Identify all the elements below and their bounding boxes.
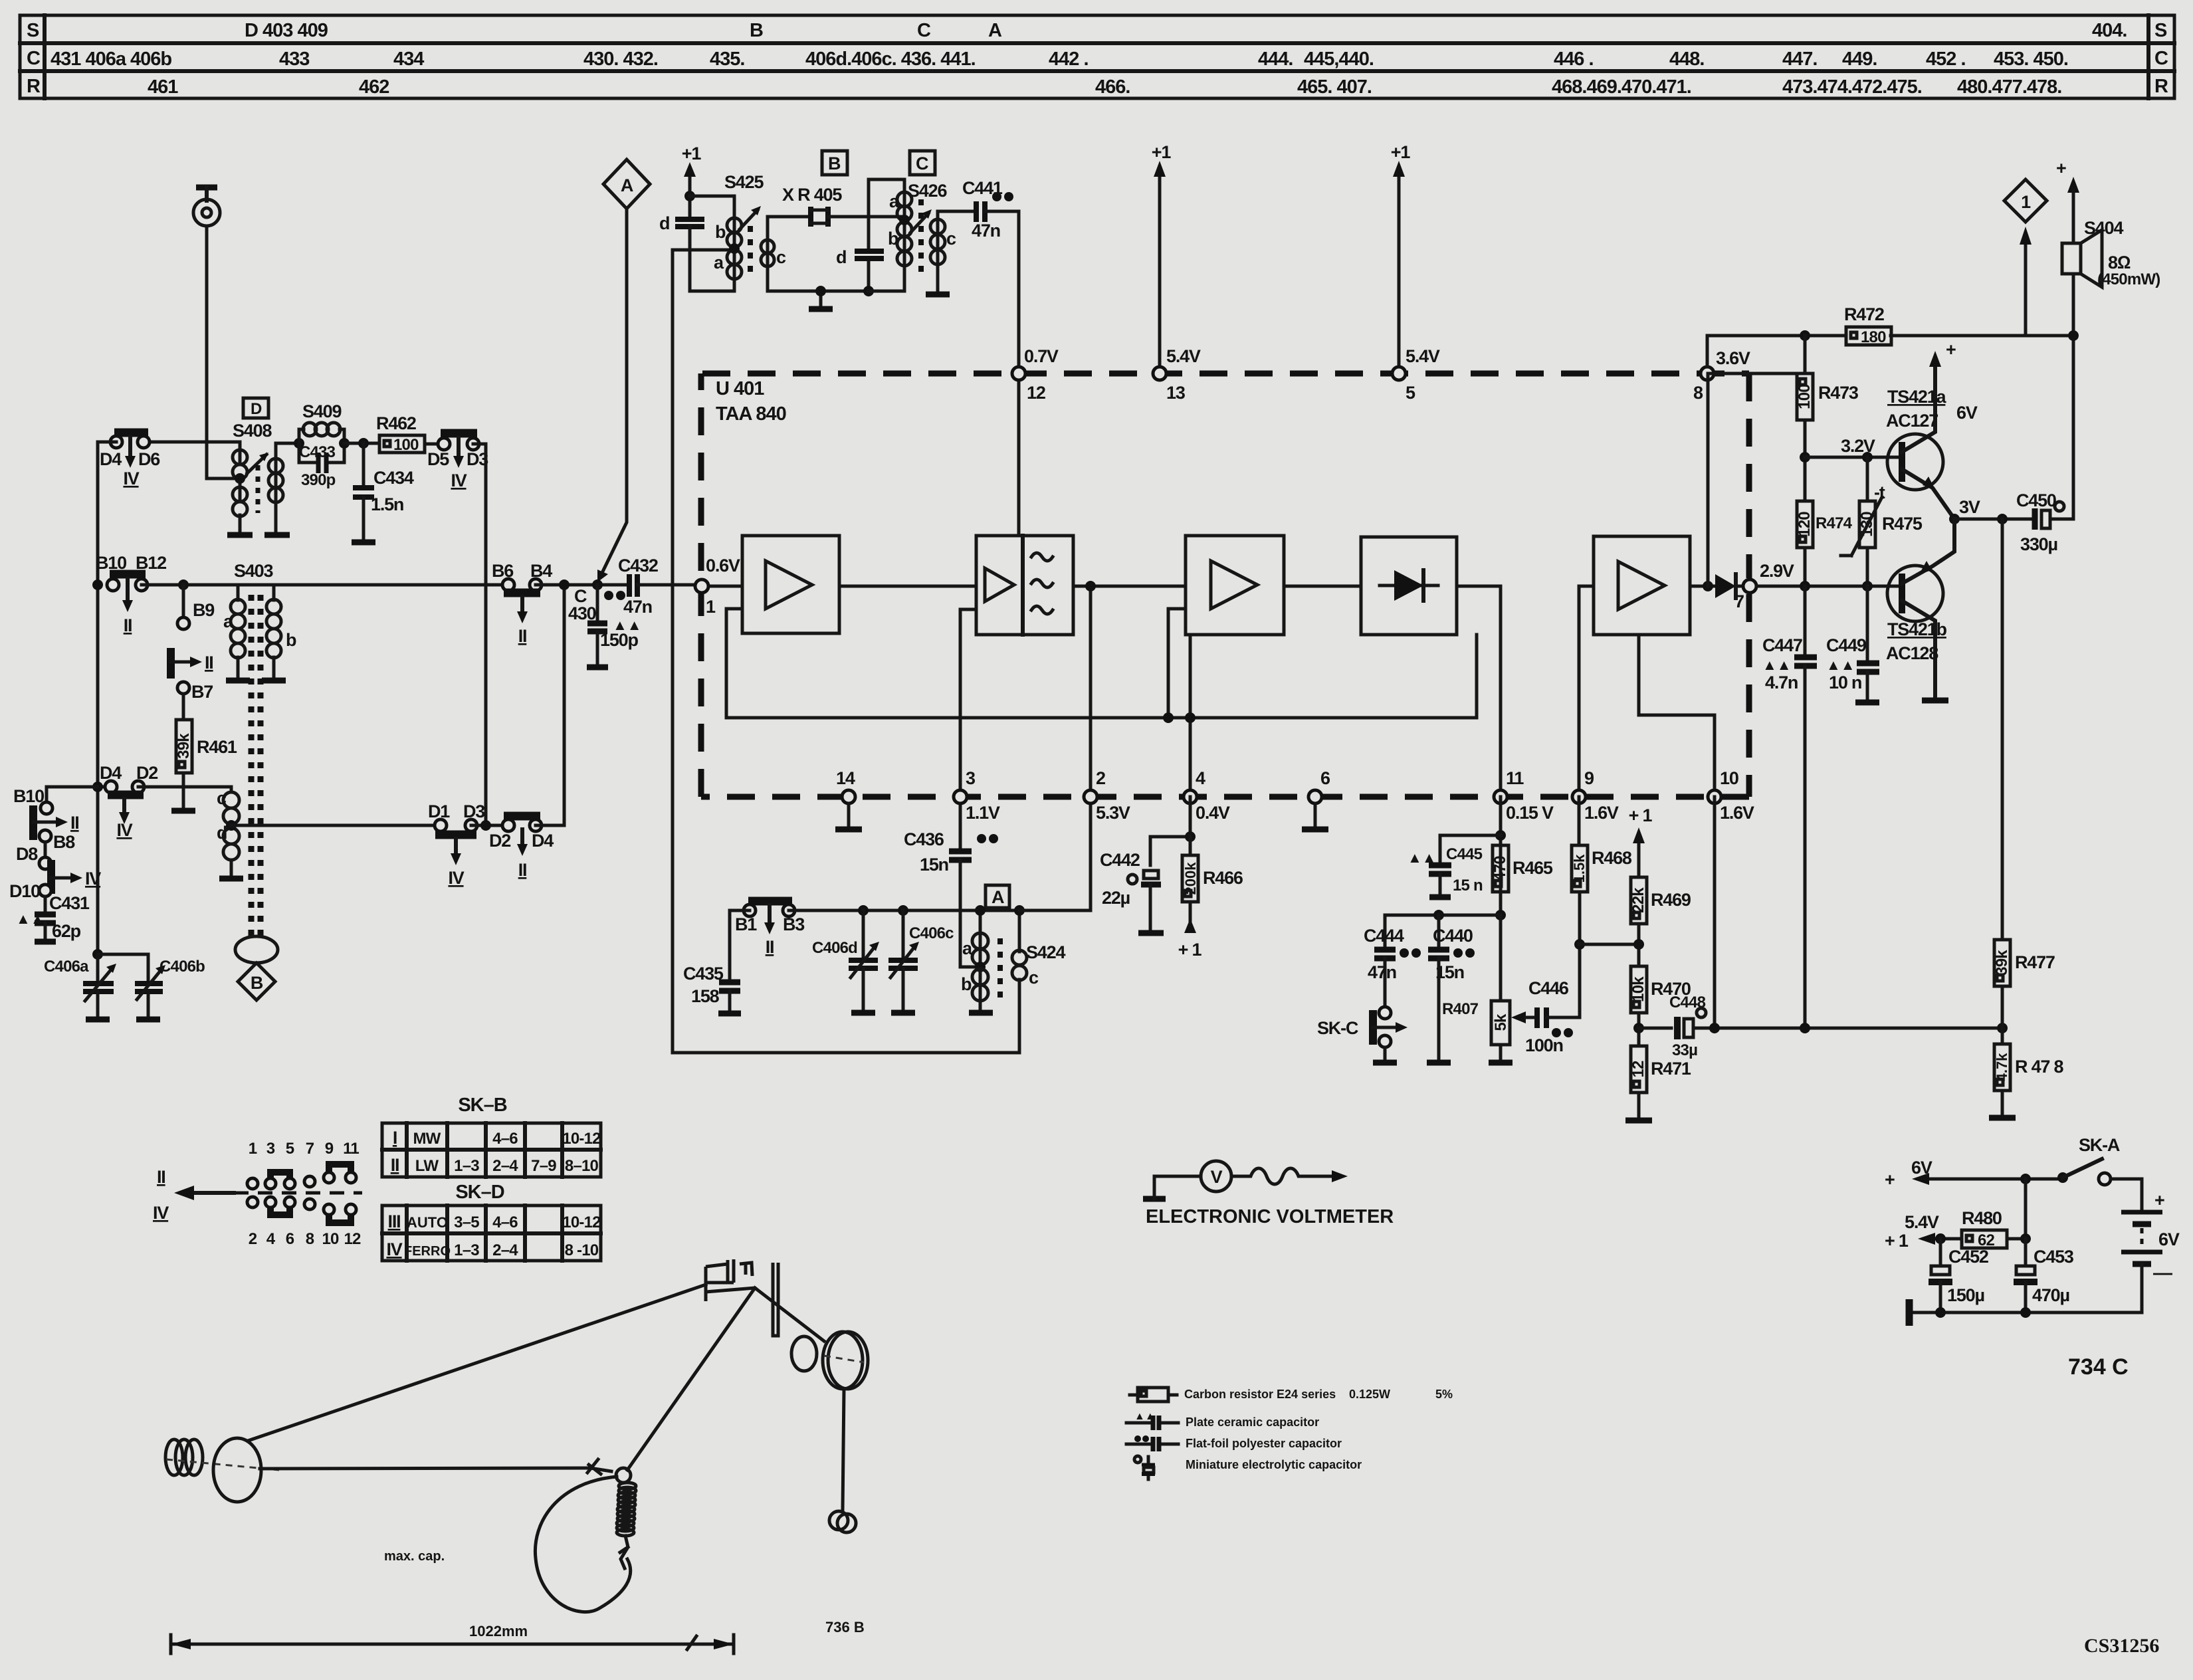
resistor R470 10k: [1629, 966, 1691, 1046]
svg-text:462: 462: [359, 76, 389, 98]
svg-text:SK-C: SK-C: [1317, 1018, 1358, 1038]
svg-text:8: 8: [1693, 383, 1703, 403]
node pin 11: [1494, 768, 1554, 823]
svg-text:5k: 5k: [1492, 1013, 1510, 1031]
svg-text:10-12: 10-12: [562, 1130, 601, 1148]
svg-text:B12: B12: [136, 553, 166, 573]
node 3V emitter: [1949, 497, 1980, 524]
resistor R471 12: [1625, 1046, 1691, 1120]
svg-text:8: 8: [306, 1230, 314, 1248]
svg-text:0.4V: 0.4V: [1196, 803, 1230, 823]
svg-text:AC128: AC128: [1886, 643, 1938, 663]
svg-text:47n: 47n: [1368, 962, 1396, 982]
legend flat-foil polyester capacitor: [1126, 1435, 1342, 1451]
junction C450 R477 riser: [1997, 514, 2008, 524]
svg-text:1.5n: 1.5n: [371, 494, 403, 514]
feedback wire block5 to pin10: [1639, 635, 1715, 797]
svg-text:5.4V: 5.4V: [1905, 1212, 1939, 1232]
svg-text:C449: C449: [1826, 635, 1867, 655]
transformer S424 winding a: [972, 933, 988, 949]
svg-text:4: 4: [1196, 768, 1205, 788]
svg-text:B: B: [828, 154, 841, 173]
capacitor C441 47n: [962, 178, 1013, 241]
svg-text:▲▲: ▲▲: [1826, 657, 1855, 673]
svg-text:448.: 448.: [1669, 49, 1704, 70]
svg-text:3–5: 3–5: [454, 1213, 479, 1231]
svg-text:S426: S426: [908, 181, 947, 201]
component XR405: [782, 185, 842, 227]
svg-text:452 .: 452 .: [1926, 49, 1966, 70]
S425 secondary c: [761, 240, 774, 253]
svg-text:5: 5: [1406, 383, 1415, 403]
svg-text:468.469.470.471.: 468.469.470.471.: [1552, 76, 1691, 98]
detector block 4: [1361, 537, 1457, 635]
svg-text:3.2V: 3.2V: [1841, 436, 1875, 456]
svg-text:I: I: [393, 1128, 397, 1148]
svg-text:100: 100: [1796, 384, 1814, 409]
supply arrow +1 R469: [1629, 805, 1653, 877]
wire S425 sec bottom to ground rail: [768, 266, 869, 291]
svg-text:7: 7: [306, 1140, 314, 1158]
svg-text:(450mW): (450mW): [2097, 270, 2160, 288]
svg-text:B3: B3: [783, 914, 805, 934]
svg-text:1: 1: [2021, 192, 2031, 212]
svg-text:C444: C444: [1364, 926, 1404, 946]
svg-text:5.3V: 5.3V: [1096, 803, 1130, 823]
svg-text:TS421b: TS421b: [1887, 619, 1947, 639]
svg-text:12: 12: [344, 1230, 361, 1248]
svg-text:473.474.472.475.: 473.474.472.475.: [1782, 76, 1922, 98]
connector B oval and diamond: [235, 936, 278, 1000]
contact B9: [177, 585, 215, 629]
svg-text:180: 180: [1861, 328, 1886, 346]
node pin 5 with +1 arrow: [1391, 142, 1440, 403]
svg-text:406d.406c. 436. 441.: 406d.406c. 436. 441.: [805, 49, 976, 70]
svg-text:IV: IV: [448, 868, 464, 888]
capacitor C452 150u: [1929, 1233, 1988, 1312]
transformer S408 primary: [233, 450, 247, 465]
svg-text:d: d: [217, 823, 227, 843]
svg-text:R468: R468: [1592, 848, 1632, 868]
junction C430: [592, 579, 603, 590]
svg-text:434: 434: [393, 49, 424, 70]
capacitor C447 4.7n: [1762, 586, 1817, 1027]
svg-text:465. 407.: 465. 407.: [1297, 76, 1372, 98]
svg-text:C: C: [917, 20, 931, 41]
wire S408 secondary to tank: [276, 443, 299, 459]
battery 6V: [2121, 1190, 2180, 1312]
svg-text:2–4: 2–4: [492, 1241, 518, 1259]
svg-text:S408: S408: [233, 421, 272, 441]
svg-text:404.: 404.: [2092, 20, 2127, 41]
wire supply rail R472: [1707, 336, 2073, 367]
table SK-B: [382, 1095, 601, 1177]
svg-text:2.9V: 2.9V: [1760, 561, 1794, 581]
node pin 2: [1084, 768, 1130, 823]
wire B12 to S403 and B6: [142, 583, 508, 587]
table row C text: [51, 49, 2068, 70]
wire block3 to block4: [1284, 585, 1361, 588]
wire to C406b: [98, 954, 148, 982]
svg-text:158: 158: [691, 986, 720, 1006]
svg-text:A: A: [992, 887, 1004, 907]
wire XR405 to S426: [828, 215, 904, 219]
wire pin3 riser: [960, 609, 976, 797]
junction enclosure top right: [1014, 905, 1025, 916]
svg-text:R: R: [2154, 76, 2168, 97]
dial cord ring: [616, 1468, 631, 1483]
thermistor R475 130: [1841, 457, 1923, 586]
connector diamond A: [603, 159, 650, 209]
svg-text:62p: 62p: [52, 921, 81, 941]
table SK-D: [382, 1182, 601, 1261]
diode U401 output: [1715, 574, 1744, 598]
svg-text:0.6V: 0.6V: [706, 556, 740, 576]
svg-text:R472: R472: [1844, 304, 1884, 324]
ground under S425: [809, 286, 833, 309]
svg-text:3.6V: 3.6V: [1716, 348, 1750, 368]
wire block5 output to diode: [1690, 585, 1715, 588]
svg-text:3V: 3V: [1959, 497, 1980, 517]
svg-text:a: a: [223, 611, 234, 631]
svg-text:IV: IV: [386, 1239, 402, 1259]
node pin 14 with ground: [835, 768, 862, 829]
svg-text:C435: C435: [683, 964, 724, 984]
coil S409: [299, 429, 344, 443]
svg-text:II: II: [518, 860, 527, 880]
dial pointer vertical: [773, 1263, 778, 1336]
contact II arrow to B7: [171, 648, 213, 702]
wire R477 riser: [2001, 519, 2004, 940]
junction C406d: [858, 905, 869, 916]
svg-text:d: d: [659, 213, 669, 233]
capacitor C444 47n: [1364, 926, 1421, 1007]
svg-text:C452: C452: [1948, 1247, 1988, 1267]
resistor R466 200k: [1178, 837, 1243, 960]
svg-text:S403: S403: [234, 561, 273, 581]
svg-text:15 n: 15 n: [1453, 877, 1483, 894]
svg-text:FERRO: FERRO: [404, 1244, 451, 1259]
svg-text:1: 1: [706, 597, 716, 617]
svg-text:C436: C436: [904, 829, 944, 849]
junction S426 ground: [863, 286, 874, 296]
svg-text:9: 9: [325, 1140, 334, 1158]
S408 secondary: [268, 459, 283, 473]
svg-text:AUTO: AUTO: [407, 1214, 448, 1231]
svg-text:453. 450.: 453. 450.: [1994, 49, 2068, 70]
speaker S404: [2062, 218, 2160, 288]
parts location table frame: [20, 15, 2174, 98]
svg-text:8–10: 8–10: [565, 1157, 599, 1175]
dial cord left spring: [165, 1439, 279, 1475]
svg-text:2: 2: [249, 1230, 257, 1248]
supply arrow +1 S425: [682, 144, 702, 201]
svg-text:-t: -t: [1874, 482, 1885, 502]
svg-text:1022mm: 1022mm: [469, 1623, 528, 1639]
capacitor C446 100n: [1525, 978, 1580, 1055]
svg-text:II: II: [766, 937, 774, 957]
svg-text:▲▲: ▲▲: [1134, 1411, 1156, 1422]
capacitor C449 10n: [1826, 586, 1879, 702]
svg-text:B: B: [750, 20, 763, 41]
junction R475 rail: [1862, 581, 1873, 591]
S424 b ground: [979, 1001, 982, 1010]
svg-text:▲▲: ▲▲: [16, 910, 45, 927]
contact D10: [9, 881, 51, 901]
wire input pin1 to block1: [702, 585, 742, 588]
S425 adjust arrow: [740, 210, 758, 229]
svg-text:11: 11: [1506, 768, 1524, 788]
svg-text:a: a: [889, 191, 900, 211]
S426 secondary c: [930, 219, 945, 234]
svg-text:b: b: [961, 974, 972, 994]
wire 6V rail with arrow: [1885, 1158, 2063, 1190]
wire c top to D2 row: [230, 787, 233, 792]
svg-text:6V: 6V: [1956, 403, 1978, 423]
wire S425 sec to XR405: [768, 217, 809, 240]
svg-text:445,440.: 445,440.: [1304, 49, 1374, 70]
table row S text: [245, 20, 2127, 41]
dial cord drum to lower spring: [843, 1389, 844, 1510]
wire D-row lower: [231, 824, 441, 827]
svg-text:33µ: 33µ: [1672, 1041, 1697, 1059]
U401 dashed box: [701, 373, 1749, 797]
svg-text:R466: R466: [1203, 868, 1243, 888]
svg-text:47n: 47n: [972, 221, 1000, 241]
svg-text:449.: 449.: [1842, 49, 1877, 70]
dial tension spring: [617, 1483, 636, 1568]
svg-text:+1: +1: [1391, 142, 1411, 162]
svg-text:10-12: 10-12: [562, 1213, 601, 1231]
svg-text:III: III: [388, 1211, 401, 1231]
svg-text:S: S: [2154, 20, 2167, 41]
S424 winding c: [1012, 950, 1027, 965]
switch D4 D2 row2: [92, 763, 231, 840]
S403 winding a: [231, 599, 245, 614]
node pin 1: [695, 579, 708, 593]
wire R468 junction to R469 chain: [1580, 943, 1639, 946]
svg-text:47n: 47n: [623, 597, 652, 617]
dial cord knot arrow: [587, 1459, 611, 1474]
svg-text:5.4V: 5.4V: [1406, 346, 1440, 366]
electronic voltmeter symbol: [1143, 1161, 1348, 1199]
svg-text:B1: B1: [735, 914, 757, 934]
svg-text:6V: 6V: [1911, 1158, 1932, 1178]
amplifier block 3: [1186, 536, 1284, 635]
svg-text:C406a: C406a: [44, 958, 89, 976]
wire pin10 down to rail: [1713, 797, 1717, 1028]
capacitor C445 15n: [1408, 835, 1501, 897]
dial cord left pulley: [213, 1438, 261, 1502]
svg-text:C406c: C406c: [909, 924, 954, 942]
svg-text:4–6: 4–6: [492, 1213, 518, 1231]
svg-text:Carbon resistor E24 series: Carbon resistor E24 series: [1184, 1388, 1336, 1401]
node tank left: [294, 438, 304, 449]
svg-text:+ 1: + 1: [1178, 940, 1202, 960]
svg-text:736 B: 736 B: [825, 1619, 865, 1635]
wire D3 down to D-row: [473, 444, 486, 824]
junction left rail C406a: [92, 949, 103, 960]
svg-text:II: II: [518, 626, 527, 646]
svg-text:R474: R474: [1816, 514, 1853, 532]
junction C406c: [898, 905, 908, 916]
label D box: [243, 398, 268, 418]
svg-text:R: R: [27, 76, 41, 97]
svg-text:1: 1: [249, 1140, 257, 1158]
svg-text:5: 5: [286, 1140, 294, 1158]
resistor R468 1.5k: [1571, 797, 1632, 1017]
svg-text:B9: B9: [193, 600, 215, 620]
svg-text:8Ω: 8Ω: [2108, 253, 2131, 272]
wire SK-A to battery: [2111, 1179, 2142, 1209]
legend plate ceramic capacitor: [1126, 1411, 1319, 1430]
svg-text:390p: 390p: [301, 471, 336, 489]
left rail vertical: [96, 585, 100, 954]
junction SK-A rail: [2020, 1174, 2031, 1184]
svg-text:150µ: 150µ: [1947, 1285, 1984, 1305]
svg-text:330µ: 330µ: [2020, 534, 2057, 554]
svg-text:470: 470: [1491, 856, 1509, 881]
feedback wire block3 stub: [1168, 609, 1186, 718]
wire B3 to S424: [789, 909, 1019, 912]
S426 adjust arrow: [910, 213, 928, 233]
svg-text:C441: C441: [962, 178, 1003, 198]
svg-text:461: 461: [148, 76, 178, 98]
S403 core dotted: [251, 595, 261, 936]
svg-text:B7: B7: [191, 682, 213, 702]
svg-text:D4: D4: [532, 831, 554, 851]
svg-text:7: 7: [1734, 591, 1744, 611]
svg-text:431 406a 406b: 431 406a 406b: [51, 49, 171, 70]
svg-text:c: c: [217, 788, 227, 808]
svg-text:10: 10: [322, 1230, 339, 1248]
wire pin2 riser: [1089, 586, 1093, 797]
svg-text:CS31256: CS31256: [2084, 1635, 2159, 1657]
wire speaker down to C450: [2072, 274, 2075, 519]
label B box: [822, 151, 847, 175]
svg-text:C: C: [916, 154, 928, 173]
svg-text:S425: S425: [724, 172, 764, 192]
switch D2 D4: [489, 816, 554, 880]
dial cord to bracket diagonal: [627, 1288, 755, 1470]
svg-text:5%: 5%: [1435, 1388, 1453, 1401]
node pin 13 with +1 arrow: [1152, 142, 1201, 403]
resistor R461 39k: [171, 694, 237, 811]
node pin 12: [1012, 367, 1025, 380]
svg-text:6: 6: [286, 1230, 294, 1248]
svg-text:B8: B8: [53, 832, 75, 852]
svg-text:39k: 39k: [175, 733, 193, 759]
svg-text:100: 100: [393, 436, 419, 454]
svg-text:D2: D2: [136, 763, 157, 783]
resistor R473 100: [1796, 373, 1859, 501]
wire pin11 down: [1499, 797, 1503, 915]
svg-text:S424: S424: [1026, 942, 1065, 962]
svg-text:+1: +1: [682, 144, 702, 163]
svg-text:—: —: [2153, 1263, 2172, 1284]
trimmer C406a: [44, 954, 116, 1019]
svg-text:B: B: [251, 973, 263, 993]
transistor TS421a AC127: [1886, 340, 1978, 519]
svg-text:AC127: AC127: [1886, 411, 1938, 431]
dial cord loop: [535, 1477, 630, 1612]
svg-text:120: 120: [1796, 512, 1814, 537]
svg-text:B4: B4: [530, 561, 552, 581]
svg-text:V: V: [1211, 1167, 1223, 1187]
transistor TS421b AC128: [1886, 519, 1954, 700]
trimmer C406b: [135, 958, 205, 1019]
svg-text:442 .: 442 .: [1049, 49, 1089, 70]
wire block2 to block3: [1073, 585, 1186, 588]
wire S426 sec top to C441: [938, 211, 974, 219]
svg-text:5.4V: 5.4V: [1166, 346, 1201, 366]
oscillator lower B1 B3 contacts: [735, 901, 805, 957]
wire D6 to S408 primary top: [144, 442, 240, 450]
svg-text:1–3: 1–3: [454, 1241, 479, 1259]
table row labels S C R: [27, 20, 2168, 97]
S424 junction a b: [975, 962, 986, 972]
resistor R474 120: [1796, 501, 1853, 586]
resistor R465 470: [1491, 845, 1553, 892]
wire SK-A junction down to R480: [2024, 1179, 2028, 1239]
resistor R462 100: [376, 413, 425, 454]
svg-text:14: 14: [836, 768, 855, 788]
svg-text:0.15 V: 0.15 V: [1506, 803, 1554, 823]
svg-text:150p: 150p: [600, 630, 638, 650]
svg-text:U 401: U 401: [716, 378, 764, 399]
svg-text:8 -10: 8 -10: [565, 1241, 599, 1259]
svg-text:IV: IV: [85, 869, 101, 889]
wire bottom rail to R477 R478: [1716, 1027, 2002, 1030]
capacitor C450 330u: [1954, 490, 2073, 554]
svg-text:1–3: 1–3: [454, 1157, 479, 1175]
legend miniature electrolytic capacitor: [1134, 1456, 1362, 1479]
svg-text:D8: D8: [16, 844, 38, 864]
label C box: [910, 151, 935, 175]
switch SK-C: [1317, 1007, 1408, 1063]
capacitor C433 390p: [299, 443, 344, 489]
svg-text:200k: 200k: [1182, 862, 1199, 895]
junction D4 riser: [559, 579, 570, 590]
S424 core: [997, 938, 1003, 998]
ground under S403 b: [262, 678, 286, 684]
svg-text:+: +: [1885, 1170, 1895, 1190]
transformer S426 loop wire: [869, 179, 904, 291]
ground under S408 secondary: [274, 502, 278, 534]
svg-text:ELECTRONIC VOLTMETER: ELECTRONIC VOLTMETER: [1146, 1206, 1394, 1227]
svg-text:II: II: [205, 653, 213, 673]
wire pin4 to C442 R466: [1150, 797, 1190, 865]
svg-text:R407: R407: [1442, 1000, 1479, 1018]
junction B9 tap: [178, 579, 189, 590]
resistor R469 22k: [1629, 877, 1691, 966]
wire pin12 to block2 top: [1017, 373, 1021, 536]
capacitor C453 470u: [2014, 1239, 2074, 1312]
svg-text:4.7k: 4.7k: [1994, 1053, 2010, 1082]
svg-text:444.: 444.: [1258, 49, 1293, 70]
svg-text:+: +: [1946, 340, 1956, 360]
S426 primary: [897, 192, 912, 207]
svg-text:IV: IV: [123, 469, 139, 488]
wire pin4 riser: [1189, 635, 1192, 797]
svg-text:B10: B10: [13, 786, 44, 806]
svg-text:c: c: [946, 229, 956, 249]
node tank right: [339, 438, 350, 449]
svg-text:SK–B: SK–B: [458, 1095, 506, 1116]
svg-text:10k: 10k: [1629, 976, 1647, 1002]
trimmer C406c: [888, 910, 954, 1013]
S408 core: [256, 465, 261, 513]
